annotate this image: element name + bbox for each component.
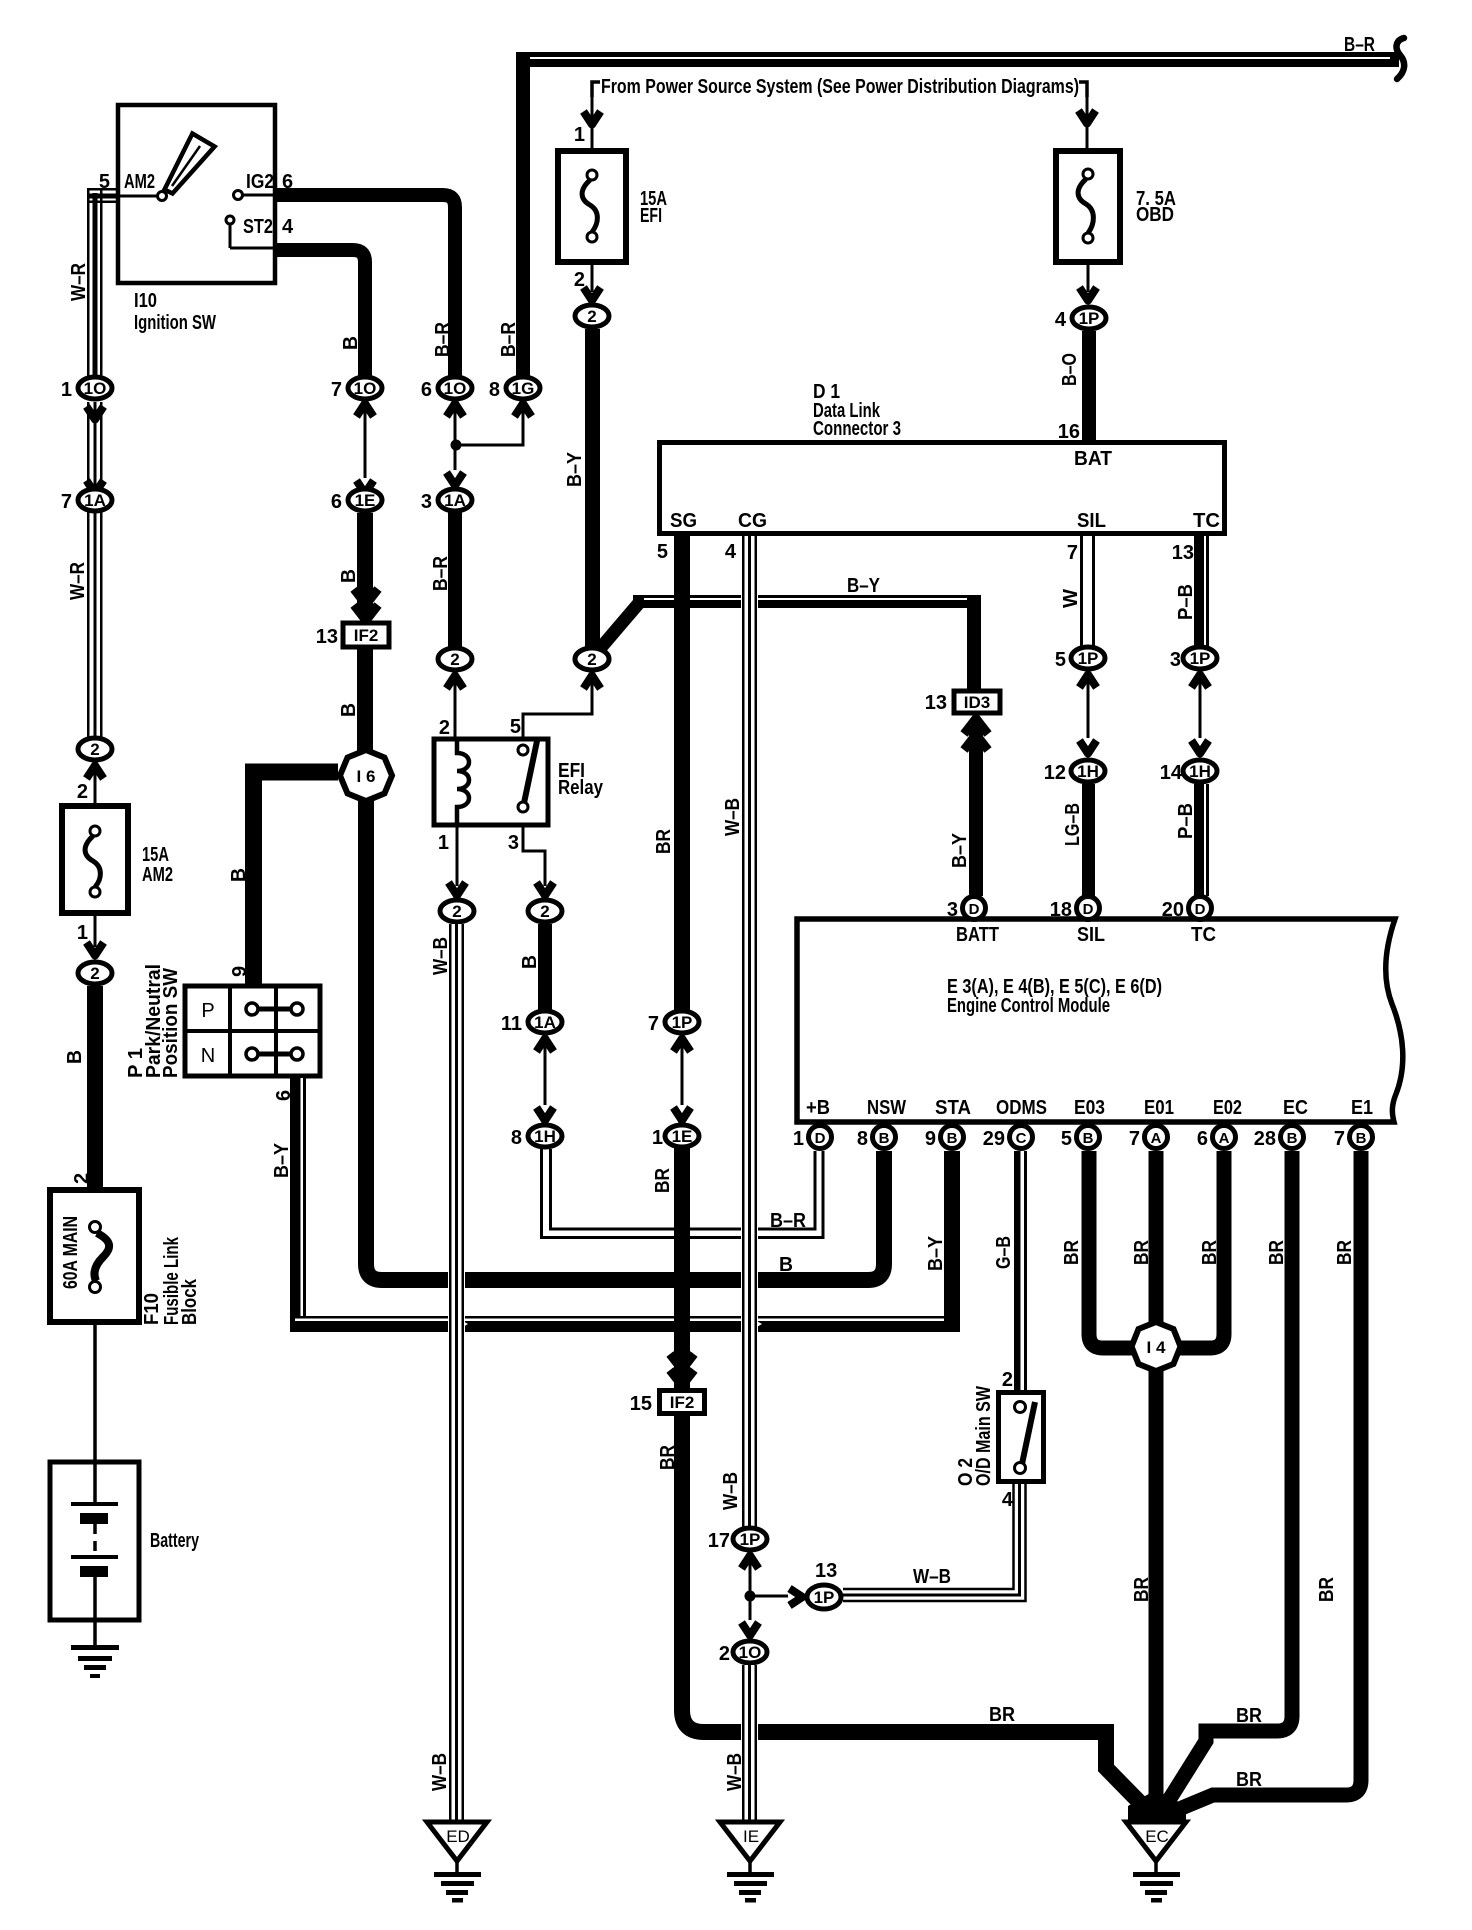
svg-text:SG: SG (670, 510, 697, 532)
svg-text:1A: 1A (534, 1013, 556, 1032)
connector 2 (below AM2 fuse) (78, 962, 112, 984)
svg-text:B: B (519, 955, 541, 969)
svg-text:6: 6 (1197, 1128, 1208, 1150)
svg-text:15A: 15A (142, 844, 169, 866)
svg-text:B: B (879, 1130, 890, 1147)
pin E1 7(B) (1350, 1126, 1373, 1149)
svg-text:B: B (228, 868, 250, 882)
svg-text:O/D Main SW: O/D Main SW (973, 1386, 995, 1486)
wire B-Y junction 2 to ID3 (tee) (598, 595, 981, 691)
wire B 2 to 1A (538, 924, 552, 1012)
fuse 15A EFI (558, 151, 626, 262)
svg-text:B: B (1287, 1130, 1298, 1147)
svg-text:IF2: IF2 (670, 1393, 695, 1412)
ignition switch I10 (116, 105, 277, 283)
svg-text:18: 18 (1050, 899, 1072, 921)
svg-text:W–B: W–B (720, 1472, 742, 1510)
wire BR E02 to I4 (1180, 1151, 1224, 1348)
svg-text:Relay: Relay (558, 777, 604, 799)
svg-text:1A: 1A (444, 491, 466, 510)
svg-text:12: 12 (1044, 762, 1066, 784)
svg-text:8: 8 (511, 1127, 522, 1149)
svg-text:1: 1 (77, 922, 88, 944)
svg-text:2: 2 (719, 1643, 730, 1665)
svg-text:1: 1 (438, 832, 449, 854)
svg-text:I10: I10 (134, 290, 157, 312)
svg-text:ODMS: ODMS (996, 1097, 1047, 1119)
wire feed to OBD fuse (1086, 84, 1089, 150)
svg-text:2: 2 (540, 902, 549, 921)
wire 2 to EFI relay pin 2 (447, 676, 464, 689)
svg-text:EC: EC (1283, 1097, 1308, 1119)
svg-text:1E: 1E (355, 491, 376, 510)
svg-text:1O: 1O (739, 1643, 762, 1662)
svg-text:7: 7 (331, 379, 342, 401)
svg-text:F10: F10 (141, 1293, 163, 1325)
svg-text:5: 5 (657, 541, 668, 563)
svg-text:B–O: B–O (1059, 353, 1081, 386)
svg-text:2: 2 (452, 902, 461, 921)
svg-text:B–Y: B–Y (564, 451, 586, 487)
junction node (451, 440, 462, 451)
svg-text:1P: 1P (672, 1013, 693, 1032)
svg-text:BR: BR (657, 1445, 679, 1470)
wire BR E01 to I4 (1149, 1151, 1164, 1327)
wire B to fusible link (87, 986, 103, 1187)
svg-text:E03: E03 (1074, 1097, 1105, 1119)
svg-text:Block: Block (179, 1278, 201, 1325)
wire G-B ODMS to O/D main switch (striped) (1014, 1151, 1027, 1391)
wire 1O(6) down with junction (447, 404, 464, 417)
svg-text:3: 3 (508, 832, 519, 854)
svg-text:P: P (201, 1000, 214, 1022)
svg-text:1P: 1P (814, 1588, 835, 1607)
svg-text:1H: 1H (534, 1127, 556, 1146)
svg-text:B–R: B–R (1344, 34, 1375, 56)
svg-text:BR: BR (989, 1704, 1015, 1726)
svg-text:W–B: W–B (724, 1753, 746, 1791)
wire 1P to 1H (1192, 675, 1209, 688)
pin STA 9(B) (941, 1126, 964, 1149)
svg-text:B: B (1356, 1130, 1367, 1147)
svg-text:1O: 1O (444, 379, 467, 398)
pin TC 20(D) (1189, 897, 1212, 920)
svg-text:B–Y: B–Y (925, 1235, 947, 1271)
wire B-R top bus (516, 52, 1399, 382)
svg-text:8: 8 (857, 1128, 868, 1150)
svg-text:AM2: AM2 (124, 171, 155, 193)
connector 2 (below EFI fuse) (575, 305, 609, 327)
svg-text:2: 2 (71, 1173, 93, 1184)
svg-text:B: B (1083, 1130, 1094, 1147)
svg-text:1: 1 (652, 1127, 663, 1149)
svg-text:W–R: W–R (67, 562, 89, 600)
svg-text:LG–B: LG–B (1062, 803, 1084, 846)
svg-text:W: W (1060, 589, 1082, 608)
svg-text:IG2: IG2 (246, 171, 274, 193)
connector 2 (EFI fuse junction) (575, 648, 609, 670)
wire W-R from AM2 (87, 188, 116, 376)
svg-text:2: 2 (587, 307, 596, 326)
pin SIL 18(D) (1077, 897, 1100, 920)
data link connector 3 D1 (660, 443, 1225, 534)
pin +B 1(D) (809, 1126, 832, 1149)
svg-text:ED: ED (446, 1827, 470, 1846)
svg-text:1O: 1O (354, 379, 377, 398)
svg-text:W–B: W–B (913, 1566, 951, 1588)
svg-text:2: 2 (450, 650, 459, 669)
wire B-Y P/N SW to STA (striped) (290, 1078, 960, 1332)
svg-text:B: B (779, 1254, 793, 1276)
wire BR E03 to I4 (1089, 1151, 1132, 1348)
svg-text:4: 4 (282, 216, 294, 238)
svg-text:BR: BR (1131, 1577, 1153, 1602)
svg-text:B: B (947, 1130, 958, 1147)
wire B 1E to IF2 (357, 513, 373, 613)
svg-text:BR: BR (1131, 1240, 1153, 1265)
pin E03 5(B) (1077, 1126, 1100, 1149)
svg-text:1: 1 (793, 1128, 804, 1150)
svg-text:P–B: P–B (1175, 803, 1197, 839)
svg-text:60A MAIN: 60A MAIN (60, 1216, 82, 1289)
svg-text:B–R: B–R (432, 322, 454, 357)
svg-text:5: 5 (1061, 1128, 1072, 1150)
pin E01 7(A) (1145, 1126, 1168, 1149)
connector 2 (EFI fuse junction, overlay) (575, 648, 609, 670)
ground (battery) (71, 1620, 119, 1678)
svg-text:Engine Control Module: Engine Control Module (947, 995, 1110, 1017)
svg-text:BR: BR (1266, 1240, 1288, 1265)
svg-text:BR: BR (653, 829, 675, 854)
pin E02 6(A) (1213, 1126, 1236, 1149)
svg-text:3: 3 (421, 491, 432, 513)
svg-text:CG: CG (738, 510, 767, 532)
wire P-B TC to 1P (striped) (1194, 536, 1209, 646)
wire fusible link to battery (93, 1322, 97, 1462)
pin BATT 3(D) (963, 897, 986, 920)
svg-text:4: 4 (1055, 309, 1067, 331)
svg-text:W–B: W–B (430, 937, 452, 975)
pin NSW 8(B) (873, 1126, 896, 1149)
svg-text:2: 2 (77, 781, 88, 803)
wire BR E1 to ground (1172, 1151, 1361, 1812)
svg-text:1: 1 (61, 379, 72, 401)
wire B I6 to Park/Neutral SW pin 9 (254, 772, 339, 984)
fusible link block F10 60A MAIN (50, 1190, 139, 1322)
svg-text:2: 2 (90, 740, 99, 759)
svg-text:EC: EC (1145, 1827, 1169, 1846)
left bracket (592, 82, 600, 97)
svg-text:7: 7 (1067, 542, 1078, 564)
svg-text:BR: BR (1236, 1769, 1262, 1791)
svg-text:B: B (338, 569, 360, 583)
svg-text:B: B (64, 1050, 86, 1064)
wire relay pin 5 to connector 2 (523, 674, 592, 739)
wire feed to EFI fuse (591, 84, 594, 150)
wire W-B 2 to ED ground (hollow triple) (448, 924, 465, 1822)
svg-text:BR: BR (1236, 1705, 1262, 1727)
svg-text:13: 13 (925, 692, 947, 714)
svg-text:5: 5 (510, 716, 521, 738)
wire W SIL to 1P (hollow) (1080, 536, 1095, 646)
wire B from ST2 (277, 250, 365, 376)
ground ED (427, 1822, 487, 1903)
wire junction to 1G (456, 404, 523, 445)
engine control module E3(A) E4(B) E5(C) E6(D) (797, 919, 1403, 1122)
wire 1O to 1A (W-R) (87, 407, 104, 420)
svg-text:+B: +B (806, 1097, 830, 1119)
svg-text:IF2: IF2 (354, 626, 379, 645)
svg-text:7: 7 (1129, 1128, 1140, 1150)
wire 1P to 1E (681, 1037, 684, 1105)
svg-text:W–B: W–B (722, 798, 744, 836)
svg-text:From Power Source System (See: From Power Source System (See Power Dist… (601, 76, 1079, 98)
wire BR EC to ground (1164, 1151, 1292, 1808)
connector 2 (B to 1A) (528, 900, 562, 922)
wire W-B CG to 17(1P) (hollow triple) (741, 536, 758, 1528)
ground IE (720, 1822, 780, 1903)
svg-text:1P: 1P (1190, 649, 1211, 668)
svg-text:B–R: B–R (498, 322, 520, 357)
svg-text:9: 9 (229, 966, 251, 977)
svg-text:D: D (1083, 901, 1094, 918)
svg-text:1E: 1E (672, 1127, 693, 1146)
svg-text:1O: 1O (84, 379, 107, 398)
svg-text:B–Y: B–Y (271, 1142, 293, 1178)
svg-text:14: 14 (1160, 762, 1183, 784)
wire 1A to 1H (537, 1039, 554, 1052)
svg-text:11: 11 (501, 1013, 522, 1035)
svg-text:B–Y: B–Y (847, 575, 881, 597)
wire relay pin 3 jog to connector 2 (523, 825, 545, 886)
wire BR SG to EC ground bus (674, 536, 690, 1010)
wire 1O(7) down (357, 404, 374, 417)
svg-text:B: B (338, 703, 360, 717)
svg-text:4: 4 (725, 541, 737, 563)
svg-text:ID3: ID3 (964, 693, 990, 712)
svg-text:D: D (969, 901, 980, 918)
svg-text:STA: STA (935, 1097, 971, 1119)
svg-text:AM2: AM2 (142, 864, 173, 886)
svg-text:BR: BR (1199, 1240, 1221, 1265)
splice I4 (1132, 1322, 1181, 1371)
svg-text:1P: 1P (740, 1530, 761, 1549)
wire B bus NSW to I6 (366, 799, 884, 1280)
svg-text:W–R: W–R (68, 263, 90, 301)
svg-text:SIL: SIL (1077, 510, 1106, 532)
connector 2 (B-R into relay) (438, 648, 472, 670)
svg-text:1: 1 (574, 124, 585, 146)
EFI relay (434, 739, 548, 825)
svg-text:3: 3 (947, 899, 958, 921)
svg-text:I 6: I 6 (357, 767, 376, 786)
svg-text:20: 20 (1162, 899, 1184, 921)
wire relay pin 1 to connector 2 (456, 825, 459, 886)
svg-text:1A: 1A (84, 491, 106, 510)
wire B-O to DLC3 BAT (1082, 331, 1096, 443)
wire P-B 1H to TC(D) (1194, 784, 1209, 896)
svg-text:A: A (1151, 1130, 1162, 1147)
svg-text:8: 8 (489, 379, 500, 401)
wire W-B O/D switch to 1P (hollow triple) (843, 1484, 1026, 1601)
svg-text:B–R: B–R (430, 556, 452, 591)
svg-text:7: 7 (61, 491, 72, 513)
svg-text:G–B: G–B (993, 1236, 1015, 1269)
connector 2 (W-B to ED) (440, 900, 474, 922)
svg-text:28: 28 (1254, 1128, 1276, 1150)
wire B-Y ID3 to BATT (969, 722, 983, 896)
svg-text:4: 4 (1002, 1489, 1014, 1511)
svg-text:2: 2 (90, 964, 99, 983)
svg-text:BAT: BAT (1074, 448, 1112, 470)
svg-text:E02: E02 (1213, 1097, 1242, 1119)
svg-text:B–R: B–R (770, 1210, 806, 1232)
junction node (745, 1591, 756, 1602)
svg-text:16: 16 (1058, 421, 1080, 443)
wire W-R 1A to connector 2 (87, 512, 103, 738)
wire B-Y EFI fuse to junction connector (585, 329, 600, 649)
svg-text:OBD: OBD (1136, 204, 1174, 226)
battery (50, 1462, 139, 1620)
splice I6 (340, 750, 392, 801)
svg-text:Position SW: Position SW (160, 968, 182, 1078)
svg-text:2: 2 (587, 650, 596, 669)
pin ODMS 29(C) (1010, 1126, 1033, 1149)
svg-text:SIL: SIL (1077, 924, 1105, 946)
wire BR I4 to EC ground (1149, 1371, 1164, 1815)
off-page continuation hook (1397, 38, 1405, 79)
svg-text:13: 13 (1172, 542, 1194, 564)
svg-text:BR: BR (1061, 1240, 1083, 1265)
svg-text:BATT: BATT (956, 924, 999, 946)
svg-text:NSW: NSW (867, 1097, 906, 1119)
svg-text:6: 6 (331, 491, 342, 513)
svg-text:6: 6 (421, 379, 432, 401)
wire B-R 1H to +B (hollow) (542, 1149, 824, 1238)
svg-text:9: 9 (925, 1128, 936, 1150)
svg-text:3: 3 (1170, 649, 1181, 671)
svg-text:I 4: I 4 (1147, 1338, 1166, 1357)
wire B-R 1A to 2 (448, 512, 462, 648)
fuse 15A AM2 (62, 806, 128, 913)
svg-text:EFI: EFI (640, 205, 662, 227)
svg-text:ST2: ST2 (243, 216, 273, 238)
svg-text:Connector 3: Connector 3 (813, 418, 901, 440)
fuse 7.5A OBD (1056, 151, 1120, 262)
svg-text:BR: BR (1334, 1240, 1356, 1265)
ground EC (1126, 1792, 1186, 1903)
svg-text:Battery: Battery (150, 1530, 200, 1552)
svg-text:7: 7 (1334, 1128, 1345, 1150)
connector 2 (above AM2 fuse) (78, 738, 112, 760)
wire branch to 13(1P) (750, 1595, 788, 1598)
wire W-B 1O to IE ground (hollow triple) (741, 1665, 758, 1822)
svg-text:29: 29 (983, 1128, 1005, 1150)
wire B-R from IG2 (277, 195, 455, 376)
svg-text:2: 2 (1002, 1369, 1013, 1391)
svg-text:1P: 1P (1079, 309, 1100, 328)
right bracket (1079, 82, 1087, 97)
svg-text:15: 15 (630, 1393, 652, 1415)
svg-text:W–B: W–B (429, 1753, 451, 1791)
svg-text:2: 2 (439, 717, 450, 739)
svg-text:1H: 1H (1077, 762, 1099, 781)
svg-text:13: 13 (316, 626, 338, 648)
wire B IF2 to I6 (357, 649, 373, 752)
svg-text:Ignition SW: Ignition SW (134, 312, 216, 334)
svg-text:E1: E1 (1351, 1097, 1373, 1119)
svg-text:BR: BR (652, 1168, 674, 1193)
svg-text:17: 17 (708, 1530, 730, 1552)
park/neutral position switch P1 (185, 986, 320, 1076)
svg-text:13: 13 (815, 1560, 837, 1582)
pin EC 28(B) (1281, 1126, 1304, 1149)
svg-text:E01: E01 (1144, 1097, 1174, 1119)
wire 1P to 1H (1080, 675, 1097, 688)
svg-text:7: 7 (648, 1013, 659, 1035)
connector 1O pin 2 (742, 1623, 759, 1636)
svg-text:B–Y: B–Y (949, 832, 971, 868)
svg-text:BR: BR (1316, 1577, 1338, 1602)
svg-text:1P: 1P (1078, 649, 1099, 668)
svg-text:B: B (340, 336, 362, 350)
svg-text:D: D (815, 1130, 826, 1147)
svg-text:5: 5 (1055, 649, 1066, 671)
svg-text:P–B: P–B (1175, 584, 1197, 620)
svg-text:D: D (1195, 901, 1206, 918)
svg-text:TC: TC (1193, 510, 1220, 532)
svg-text:N: N (201, 1045, 215, 1067)
svg-text:IE: IE (743, 1827, 759, 1846)
svg-text:1H: 1H (1189, 762, 1211, 781)
svg-text:A: A (1219, 1130, 1230, 1147)
wire LG-B 1H to SIL(D) (1082, 784, 1095, 896)
svg-text:TC: TC (1191, 924, 1216, 946)
svg-text:1G: 1G (512, 379, 535, 398)
junction connector IF2 pin 15 (670, 1354, 694, 1370)
svg-text:C: C (1016, 1130, 1027, 1147)
